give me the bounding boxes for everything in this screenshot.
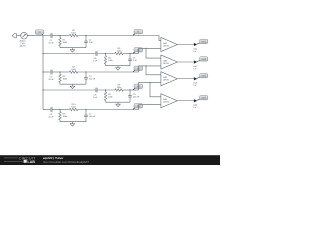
- svg-text:http://circuitlab.com/c6mku4ba: http://circuitlab.com/c6mku4ba9jtrk57: [43, 160, 90, 164]
- svg-text:out3: out3: [201, 75, 206, 78]
- svg-text:100 nF: 100 nF: [89, 116, 96, 118]
- svg-text:LM741: LM741: [163, 63, 170, 65]
- svg-text:1 uF: 1 uF: [133, 60, 138, 62]
- svg-text:LM741: LM741: [163, 80, 170, 82]
- svg-text:LM741: LM741: [163, 102, 170, 104]
- svg-text:440 Hz: 440 Hz: [20, 45, 26, 47]
- svg-text:LM741: LM741: [163, 45, 170, 47]
- svg-text:1 uF: 1 uF: [89, 42, 94, 44]
- svg-text:LAB: LAB: [27, 160, 35, 164]
- svg-text:10 uF: 10 uF: [48, 43, 54, 45]
- svg-text:out4: out4: [201, 97, 206, 100]
- svg-text:100 nF: 100 nF: [89, 79, 96, 81]
- svg-text:100 nF: 100 nF: [133, 97, 140, 99]
- svg-text:1 uF: 1 uF: [93, 61, 98, 63]
- svg-text:1 uF: 1 uF: [93, 97, 98, 99]
- svg-text:10 uF: 10 uF: [48, 117, 54, 119]
- svg-text:10 uF: 10 uF: [48, 79, 54, 81]
- svg-text:out2: out2: [201, 58, 206, 61]
- svg-text:out1: out1: [201, 40, 206, 43]
